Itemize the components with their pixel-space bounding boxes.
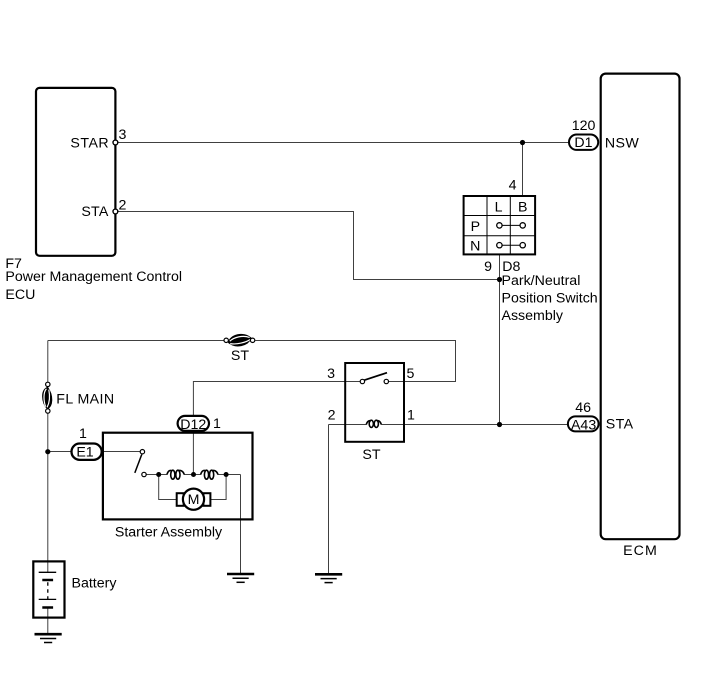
svg-text:ST: ST [362, 447, 380, 463]
svg-text:5: 5 [407, 366, 415, 382]
svg-text:Starter Assembly: Starter Assembly [115, 525, 223, 541]
svg-text:STA: STA [81, 204, 108, 220]
svg-text:ECU: ECU [5, 287, 35, 303]
svg-text:D12: D12 [180, 417, 206, 433]
svg-text:STAR: STAR [70, 135, 109, 151]
svg-text:3: 3 [119, 127, 127, 143]
svg-text:Park/Neutral: Park/Neutral [502, 273, 581, 289]
svg-text:Power Management Control: Power Management Control [5, 269, 182, 285]
svg-text:46: 46 [575, 400, 591, 416]
svg-text:4: 4 [509, 178, 517, 194]
svg-text:3: 3 [327, 366, 335, 382]
svg-text:9: 9 [484, 259, 492, 275]
svg-text:FL MAIN: FL MAIN [56, 392, 114, 408]
svg-text:1: 1 [79, 426, 87, 442]
svg-text:B: B [518, 199, 527, 215]
svg-text:ECM: ECM [623, 543, 658, 559]
svg-text:1: 1 [407, 408, 415, 424]
svg-text:E1: E1 [76, 444, 93, 460]
svg-text:STA: STA [606, 417, 634, 433]
svg-text:ST: ST [231, 348, 249, 364]
svg-text:1: 1 [213, 416, 221, 432]
svg-text:Battery: Battery [72, 576, 118, 592]
svg-text:M: M [188, 492, 200, 508]
svg-text:A43: A43 [571, 417, 596, 433]
svg-text:P: P [471, 219, 480, 235]
svg-text:120: 120 [572, 118, 596, 134]
svg-text:L: L [495, 199, 503, 215]
svg-text:D1: D1 [574, 135, 592, 151]
svg-text:Position Switch: Position Switch [502, 291, 598, 307]
svg-text:Assembly: Assembly [502, 308, 564, 324]
svg-text:N: N [470, 239, 480, 255]
svg-text:2: 2 [119, 197, 127, 213]
svg-text:2: 2 [328, 408, 336, 424]
svg-text:NSW: NSW [605, 136, 640, 152]
